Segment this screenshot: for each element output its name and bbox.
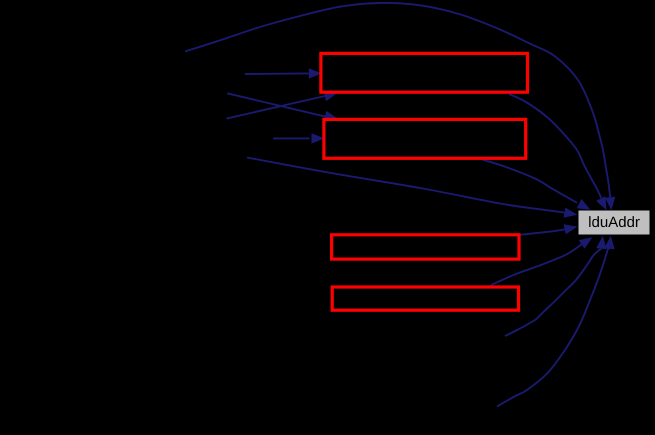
node lduAddr (current node, grey fill) [578,210,650,235]
wire edge-10: left node into box B (descending diagonal) [227,93,338,121]
wire edge-12: left node into box B [273,133,325,143]
wire edge-11: left node into box A (ascending diagonal) [227,91,338,119]
wire edge-4: left node to lduAddr (long diagonal) [247,158,577,218]
wire edge-7: bottom node to lduAddr [505,236,607,336]
node box A (truncated node, red border) [321,53,528,92]
wire edge-5: box C to lduAddr [521,224,578,235]
wire edge-8: lowest node to lduAddr [497,236,615,407]
node box B (truncated node, red border) [324,119,526,158]
node box C (truncated node, red border) [332,235,519,259]
wire edge-1: far-left node to lduAddr (big top arc) [185,3,615,210]
node box D (truncated node, red border) [332,287,518,310]
wire edge-6: box D to lduAddr [491,237,593,285]
wire edge-9: left node into box A [245,68,322,78]
wire edge-3: box B to lduAddr [482,160,591,210]
wire edge-2: box A to lduAddr [509,94,607,210]
